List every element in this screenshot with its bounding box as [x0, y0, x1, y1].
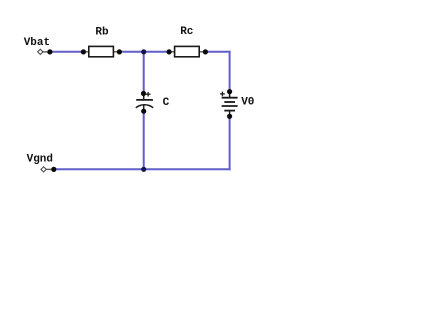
- battery V0: [220, 92, 238, 117]
- svg-text:Rc: Rc: [180, 26, 193, 38]
- svg-text:C: C: [163, 97, 170, 109]
- resistor Rb: [83, 46, 119, 56]
- wire battery to bottom rail: [229, 116, 231, 170]
- capacitor C1 (polarized): [136, 92, 153, 111]
- wire right branch down to battery: [229, 51, 231, 92]
- svg-text:Rb: Rb: [95, 26, 109, 38]
- terminal Vbat: [38, 49, 50, 54]
- pin dot V0 bottom: [227, 114, 232, 119]
- terminal Vgnd: [41, 167, 54, 172]
- pin dot Rc right: [203, 49, 208, 54]
- pin dot Rc left: [167, 49, 172, 54]
- pin dot C bottom: [141, 109, 146, 114]
- resistor Rc: [169, 46, 205, 56]
- wire capacitor to bottom rail: [143, 111, 145, 170]
- wire bottom rail: [53, 168, 231, 170]
- node A junction top (Rb/Rc/C tee): [141, 49, 146, 54]
- wire top rail Vbat to Rb: [50, 51, 84, 53]
- node B junction bottom (C/bottom rail tee): [141, 167, 146, 172]
- pin dot C top: [141, 91, 146, 96]
- svg-text:Vbat: Vbat: [24, 37, 50, 49]
- svg-text:V0: V0: [241, 97, 254, 109]
- node dot at Vgnd pin: [51, 167, 56, 172]
- pin dot V0 top: [227, 89, 232, 94]
- wire Rc to top-right corner: [204, 51, 231, 53]
- wire Rb to Rc through node: [118, 51, 170, 53]
- svg-text:Vgnd: Vgnd: [27, 154, 53, 166]
- node dot at Vbat pin: [47, 49, 52, 54]
- pin dot Rb right: [117, 49, 122, 54]
- wire middle branch node to capacitor: [143, 51, 145, 94]
- pin dot Rb left: [81, 49, 86, 54]
